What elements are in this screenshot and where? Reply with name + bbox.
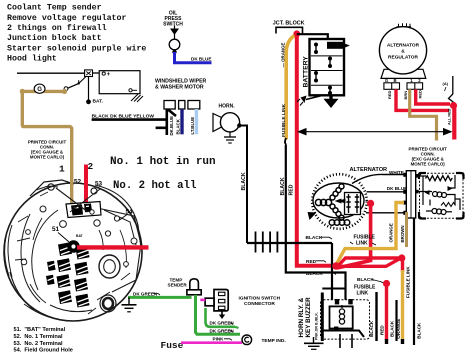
wire black wiper feed [92, 109, 176, 135]
svg-text:BAT: BAT [76, 234, 84, 238]
stator coil lower diagonal [330, 204, 344, 220]
label FUSIBLE LINK lower [354, 285, 376, 297]
horn H1 [213, 113, 242, 132]
regulator resistor zigzag 2 [441, 203, 456, 207]
node splice ammeter (red dot) [332, 262, 340, 270]
terminal block G/B [384, 83, 400, 90]
wire red BAT output [77, 245, 149, 249]
printed circuit connector span line [297, 128, 453, 136]
ground arrow small [297, 96, 307, 106]
leader 53 [88, 187, 97, 197]
node tan right [62, 89, 67, 94]
temp sender unit [168, 277, 202, 295]
BAT terminal 51 [67, 234, 83, 253]
battery ground strap [306, 96, 322, 100]
svg-text:FUSIBLE LINK: FUSIBLE LINK [281, 103, 287, 137]
svg-text:TEMP: TEMP [170, 277, 183, 282]
voltage regulator box (dashed) [419, 173, 464, 219]
svg-text:BLACK: BLACK [241, 172, 247, 190]
svg-text:WHITE: WHITE [389, 170, 404, 175]
svg-text:RED: RED [380, 325, 385, 335]
wire red drop to printed circuit [452, 106, 456, 140]
connector wiper box3 [188, 101, 200, 110]
stator coil upper diagonal [330, 184, 344, 200]
pink stub at connector [200, 299, 205, 302]
wire dk green drop [196, 295, 241, 334]
label printed circuit conn right [409, 146, 448, 166]
svg-text:LINK: LINK [356, 240, 368, 246]
connector block right [403, 171, 418, 218]
svg-text:BLACK: BLACK [417, 322, 422, 339]
svg-text:— ORANGE: — ORANGE [280, 43, 285, 68]
svg-text:& WASHER MOTOR: & WASHER MOTOR [155, 85, 204, 91]
wire black stub right of red [395, 300, 397, 341]
wire: hood light feed [17, 72, 85, 74]
svg-text:BATTERY: BATTERY [303, 56, 310, 88]
wire horn feed black [239, 126, 247, 244]
rectifier bridge [335, 193, 361, 215]
pulley ring [100, 295, 116, 312]
svg-text:2 things on firewall: 2 things on firewall [7, 23, 107, 33]
svg-text:ORANGE: ORANGE [388, 223, 393, 242]
ground below horn [224, 132, 236, 143]
svg-text:51. "BAT" Terminal: 51. "BAT" Terminal [14, 327, 66, 333]
wire red No.2 over case [84, 182, 88, 203]
svg-text:RED: RED [387, 90, 392, 99]
svg-text:51: 51 [52, 226, 60, 233]
leader 54 [120, 215, 128, 221]
svg-text:JCT. BLOCK: JCT. BLOCK [273, 20, 305, 26]
svg-text:BLACK: BLACK [357, 277, 374, 283]
svg-text:RED: RED [288, 184, 294, 195]
leader lines 52 53 crossed [56, 188, 100, 212]
terminal block 1/2 [407, 83, 423, 90]
svg-text:HORN RLY. &: HORN RLY. & [298, 297, 305, 337]
stator coils left [315, 199, 331, 205]
vent slots [46, 242, 90, 307]
wire orange fusible lower [401, 270, 404, 340]
svg-text:1: 1 [59, 164, 65, 175]
wire black fusible continuation [286, 145, 346, 300]
wire red from B terminal [396, 89, 449, 110]
wire end cap red [385, 339, 388, 344]
leader 52 [76, 185, 79, 196]
switch S2 lever [64, 77, 86, 91]
svg-text:+: + [107, 72, 111, 78]
wire black circuit A [449, 76, 454, 102]
svg-text:Fuse: Fuse [161, 340, 184, 351]
alternator rear case drawing [4, 180, 142, 321]
ignition connector drop wire [219, 311, 225, 319]
svg-text:MONTE CARLO): MONTE CARLO) [30, 154, 65, 159]
wire black regulator drop [413, 219, 415, 346]
wire white [352, 174, 406, 183]
alternator top terminal block [66, 202, 101, 218]
label IGNITION SWITCH CONNECTOR [239, 295, 281, 307]
wire orange down from connector [337, 203, 405, 265]
node jct splice (red dot) [293, 30, 300, 37]
svg-text:No. 2 hot all: No. 2 hot all [113, 180, 196, 192]
wire red No.2 [84, 165, 88, 204]
svg-text:&: & [401, 48, 405, 54]
horn relay assembly [286, 274, 370, 349]
svg-text:BAT.: BAT. [93, 99, 103, 105]
svg-text:CONNECTOR: CONNECTOR [244, 301, 275, 307]
svg-text:(A): (A) [443, 81, 449, 86]
svg-text:PINK: PINK [213, 336, 225, 341]
svg-text:ALL RED: ALL RED [448, 108, 452, 125]
svg-text:BLACK: BLACK [280, 177, 286, 195]
svg-text:BROWN: BROWN [400, 225, 405, 242]
ignition switch connector [205, 290, 228, 311]
wire lower lead [366, 212, 406, 214]
svg-text:REGULATOR: REGULATOR [388, 54, 418, 60]
leader 51 [58, 233, 69, 243]
svg-text:2: 2 [88, 161, 94, 172]
connector wiper box2 [179, 101, 185, 110]
svg-text:BLACK: BLACK [176, 118, 181, 134]
node horn feed splice (red dot) [383, 280, 390, 287]
svg-text:DK.BLUE: DK.BLUE [169, 116, 174, 136]
wire red white fusible [401, 258, 404, 272]
svg-text:HORN.: HORN. [219, 104, 236, 110]
gauge G1 [34, 84, 45, 93]
wire dk green sender feed [128, 296, 192, 299]
ground temp circuit [122, 297, 137, 311]
wire pink fuse feed [181, 341, 242, 344]
hood light box B1 [99, 71, 140, 94]
svg-text:SENDER: SENDER [168, 283, 188, 288]
wire orange fusible link (yellow) [286, 36, 294, 140]
wire to BAT stud [88, 77, 90, 101]
wire red alternator output [337, 203, 371, 268]
arrow green branch [235, 327, 239, 328]
svg-text:RED: RED [417, 90, 422, 99]
ground horn relay [304, 337, 324, 349]
wire lt blue bar [195, 109, 198, 134]
alternator schematic body [313, 183, 364, 218]
splice hook yellow to black [285, 138, 286, 145]
battery BT1 [310, 39, 345, 95]
temp indicator lamp [242, 335, 252, 345]
case holes [21, 206, 137, 266]
vent slot stripes [48, 247, 90, 307]
bearing boss [99, 255, 120, 278]
wire dk blue lead [367, 191, 407, 193]
svg-text:ALTERNATOR: ALTERNATOR [350, 167, 388, 173]
svg-text:52. No. 1 Terminal: 52. No. 1 Terminal [14, 334, 63, 340]
label printed circuit conn left [28, 139, 67, 159]
svg-text:G: G [37, 87, 42, 93]
svg-text:TEMP IND.: TEMP IND. [262, 338, 286, 344]
svg-text:53. No. 2 Terminal: 53. No. 2 Terminal [14, 341, 63, 347]
svg-text:LINK: LINK [357, 290, 369, 296]
svg-text:MONTE CARLO): MONTE CARLO) [411, 161, 446, 166]
node fusible link top (red dot) [398, 254, 405, 261]
wire red main batt feed [297, 35, 334, 266]
svg-text:Hood light: Hood light [7, 54, 57, 64]
svg-text:ALTERNATOR: ALTERNATOR [387, 42, 420, 48]
node splice A (red dot) [450, 102, 457, 109]
connector J1 (small box) [85, 70, 93, 77]
svg-text:SWITCH: SWITCH [163, 22, 183, 28]
svg-text:PNK.OR B./BLK.: PNK.OR B./BLK. [315, 312, 319, 340]
regulator resistor zigzag 1 [426, 176, 453, 181]
svg-text:Coolant Temp sender: Coolant Temp sender [7, 3, 102, 13]
wire end cap orange [401, 339, 404, 344]
ground arrow alternator [308, 212, 317, 220]
svg-text:FUSIBLE LINK: FUSIBLE LINK [405, 266, 410, 298]
svg-text:LT.BLUE: LT.BLUE [190, 117, 195, 135]
svg-text:DK BLUE: DK BLUE [191, 57, 211, 62]
svg-text:IGNITION SWITCH: IGNITION SWITCH [239, 295, 281, 301]
node alternator output (red dot) [367, 200, 374, 207]
wire black bar (BLACK label) [180, 109, 183, 134]
svg-text:Junction block batt: Junction block batt [7, 33, 102, 43]
wire black comb to relay pin1 [331, 243, 333, 300]
wire red lower run [337, 259, 400, 267]
wire brown from 1 terminal [410, 89, 437, 140]
junction block symbol [276, 27, 303, 33]
wire to starter (down arrow) [324, 95, 339, 108]
wire brown from connector [405, 212, 408, 247]
svg-text:BRN: BRN [403, 91, 408, 100]
wire dk blue from oil switch [175, 52, 212, 63]
connector wiper box1 [164, 101, 175, 110]
node tan left [20, 89, 25, 94]
svg-text:Remove voltage regulator: Remove voltage regulator [7, 13, 127, 23]
wire red splice to fuse link [338, 258, 401, 267]
wire red horn feed [385, 284, 388, 340]
wire red from 2 terminal [416, 89, 450, 104]
wire dk green branch to ignition [206, 308, 236, 327]
svg-text:BLACK: BLACK [306, 271, 323, 277]
note list: hookup notes [7, 3, 146, 64]
wire to hood light box [93, 72, 100, 74]
bulkhead connector comb [247, 232, 332, 253]
svg-text:B: B [393, 78, 396, 83]
ground hatching at box corner [131, 94, 143, 102]
svg-text:54. Field Ground Hole: 54. Field Ground Hole [14, 348, 73, 354]
svg-text:No. 1 hot in run: No. 1 hot in run [110, 156, 216, 168]
label FUSIBLE LINK upper [350, 234, 376, 246]
terminal labels G B 1 2 [385, 78, 421, 83]
svg-text:BLACK: BLACK [389, 320, 394, 337]
wire tan jumper (gauge feed) [22, 90, 64, 93]
wire tan No.1 over case [70, 182, 73, 204]
rotor coil bottom [329, 220, 350, 226]
alternator schematic stator ring [312, 174, 367, 229]
wire black to battery [297, 34, 328, 42]
battery positive terminal lug [327, 42, 350, 49]
alternator & regulator unit U1 [379, 23, 426, 78]
oil pressure switch S1 [163, 11, 183, 55]
svg-text:RED: RED [306, 259, 317, 265]
svg-text:KEY BUZZER: KEY BUZZER [305, 297, 312, 338]
legend: terminal callout list [14, 327, 73, 353]
regulator coil 2 [432, 209, 446, 215]
svg-text:BLACK: BLACK [306, 235, 323, 241]
label windshield wiper & washer motor [155, 79, 207, 91]
wire black relay right [375, 292, 377, 341]
regulator internal wiring [416, 175, 460, 212]
regulator coil 1 [433, 192, 447, 198]
wire tan No.1 run [22, 91, 71, 201]
svg-text:Starter solenoid purple wire: Starter solenoid purple wire [7, 43, 146, 53]
node BAT [86, 99, 91, 104]
